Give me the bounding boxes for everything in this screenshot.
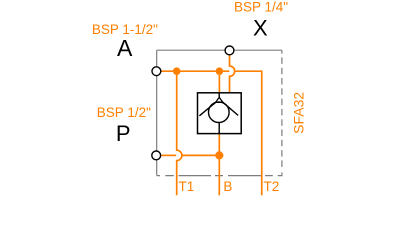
wire: A line horizontal right segment, corner, T2 drop line	[234, 71, 261, 195]
svg-text:T1: T1	[179, 179, 195, 194]
junction dot on A line at T1 branch	[173, 67, 181, 75]
check valve top stem	[218, 93, 220, 98]
svg-text:A: A	[117, 35, 133, 61]
wire: A line horizontal left segment (port A to hop gap)	[161, 70, 230, 72]
check valve body square	[198, 93, 242, 134]
port A circle	[152, 67, 161, 76]
wire: junction to valve top	[218, 71, 220, 92]
check valve seat right diagonal	[223, 102, 238, 115]
wire: P line left segment (port P to hop gap)	[161, 154, 177, 156]
wire: X pilot line with hop over A line	[230, 55, 235, 93]
svg-text:X: X	[253, 15, 268, 40]
junction dot on A line at valve branch	[216, 67, 224, 75]
envelope boundary right edge (dashed)	[281, 50, 283, 168]
check valve seat left diagonal	[199, 102, 215, 116]
check valve seat apex triangle	[216, 97, 223, 102]
port P circle	[152, 151, 161, 160]
svg-text:B: B	[223, 179, 232, 194]
wire: B line (valve bottom through junction to port B)	[218, 134, 220, 196]
port X circle	[225, 46, 234, 55]
envelope boundary top edge (solid)	[157, 49, 282, 51]
wire: T1 drop line with hop over P line	[177, 71, 182, 195]
check valve ball	[209, 102, 230, 123]
svg-text:BSP 1/4": BSP 1/4"	[234, 0, 288, 14]
junction dot on P line at B branch	[215, 151, 223, 159]
check valve bottom stem	[218, 122, 220, 133]
svg-text:SFA32: SFA32	[290, 92, 306, 134]
envelope boundary left edge (solid)	[156, 50, 158, 175]
svg-text:BSP 1/2": BSP 1/2"	[97, 105, 151, 120]
envelope boundary bottom-right dashed corner piece	[278, 172, 282, 175]
svg-text:T2: T2	[264, 179, 280, 194]
svg-text:P: P	[116, 121, 131, 146]
wire: P line right segment (hop apex to B junction)	[182, 154, 219, 156]
envelope boundary bottom edge (dashed segments)	[157, 175, 273, 177]
